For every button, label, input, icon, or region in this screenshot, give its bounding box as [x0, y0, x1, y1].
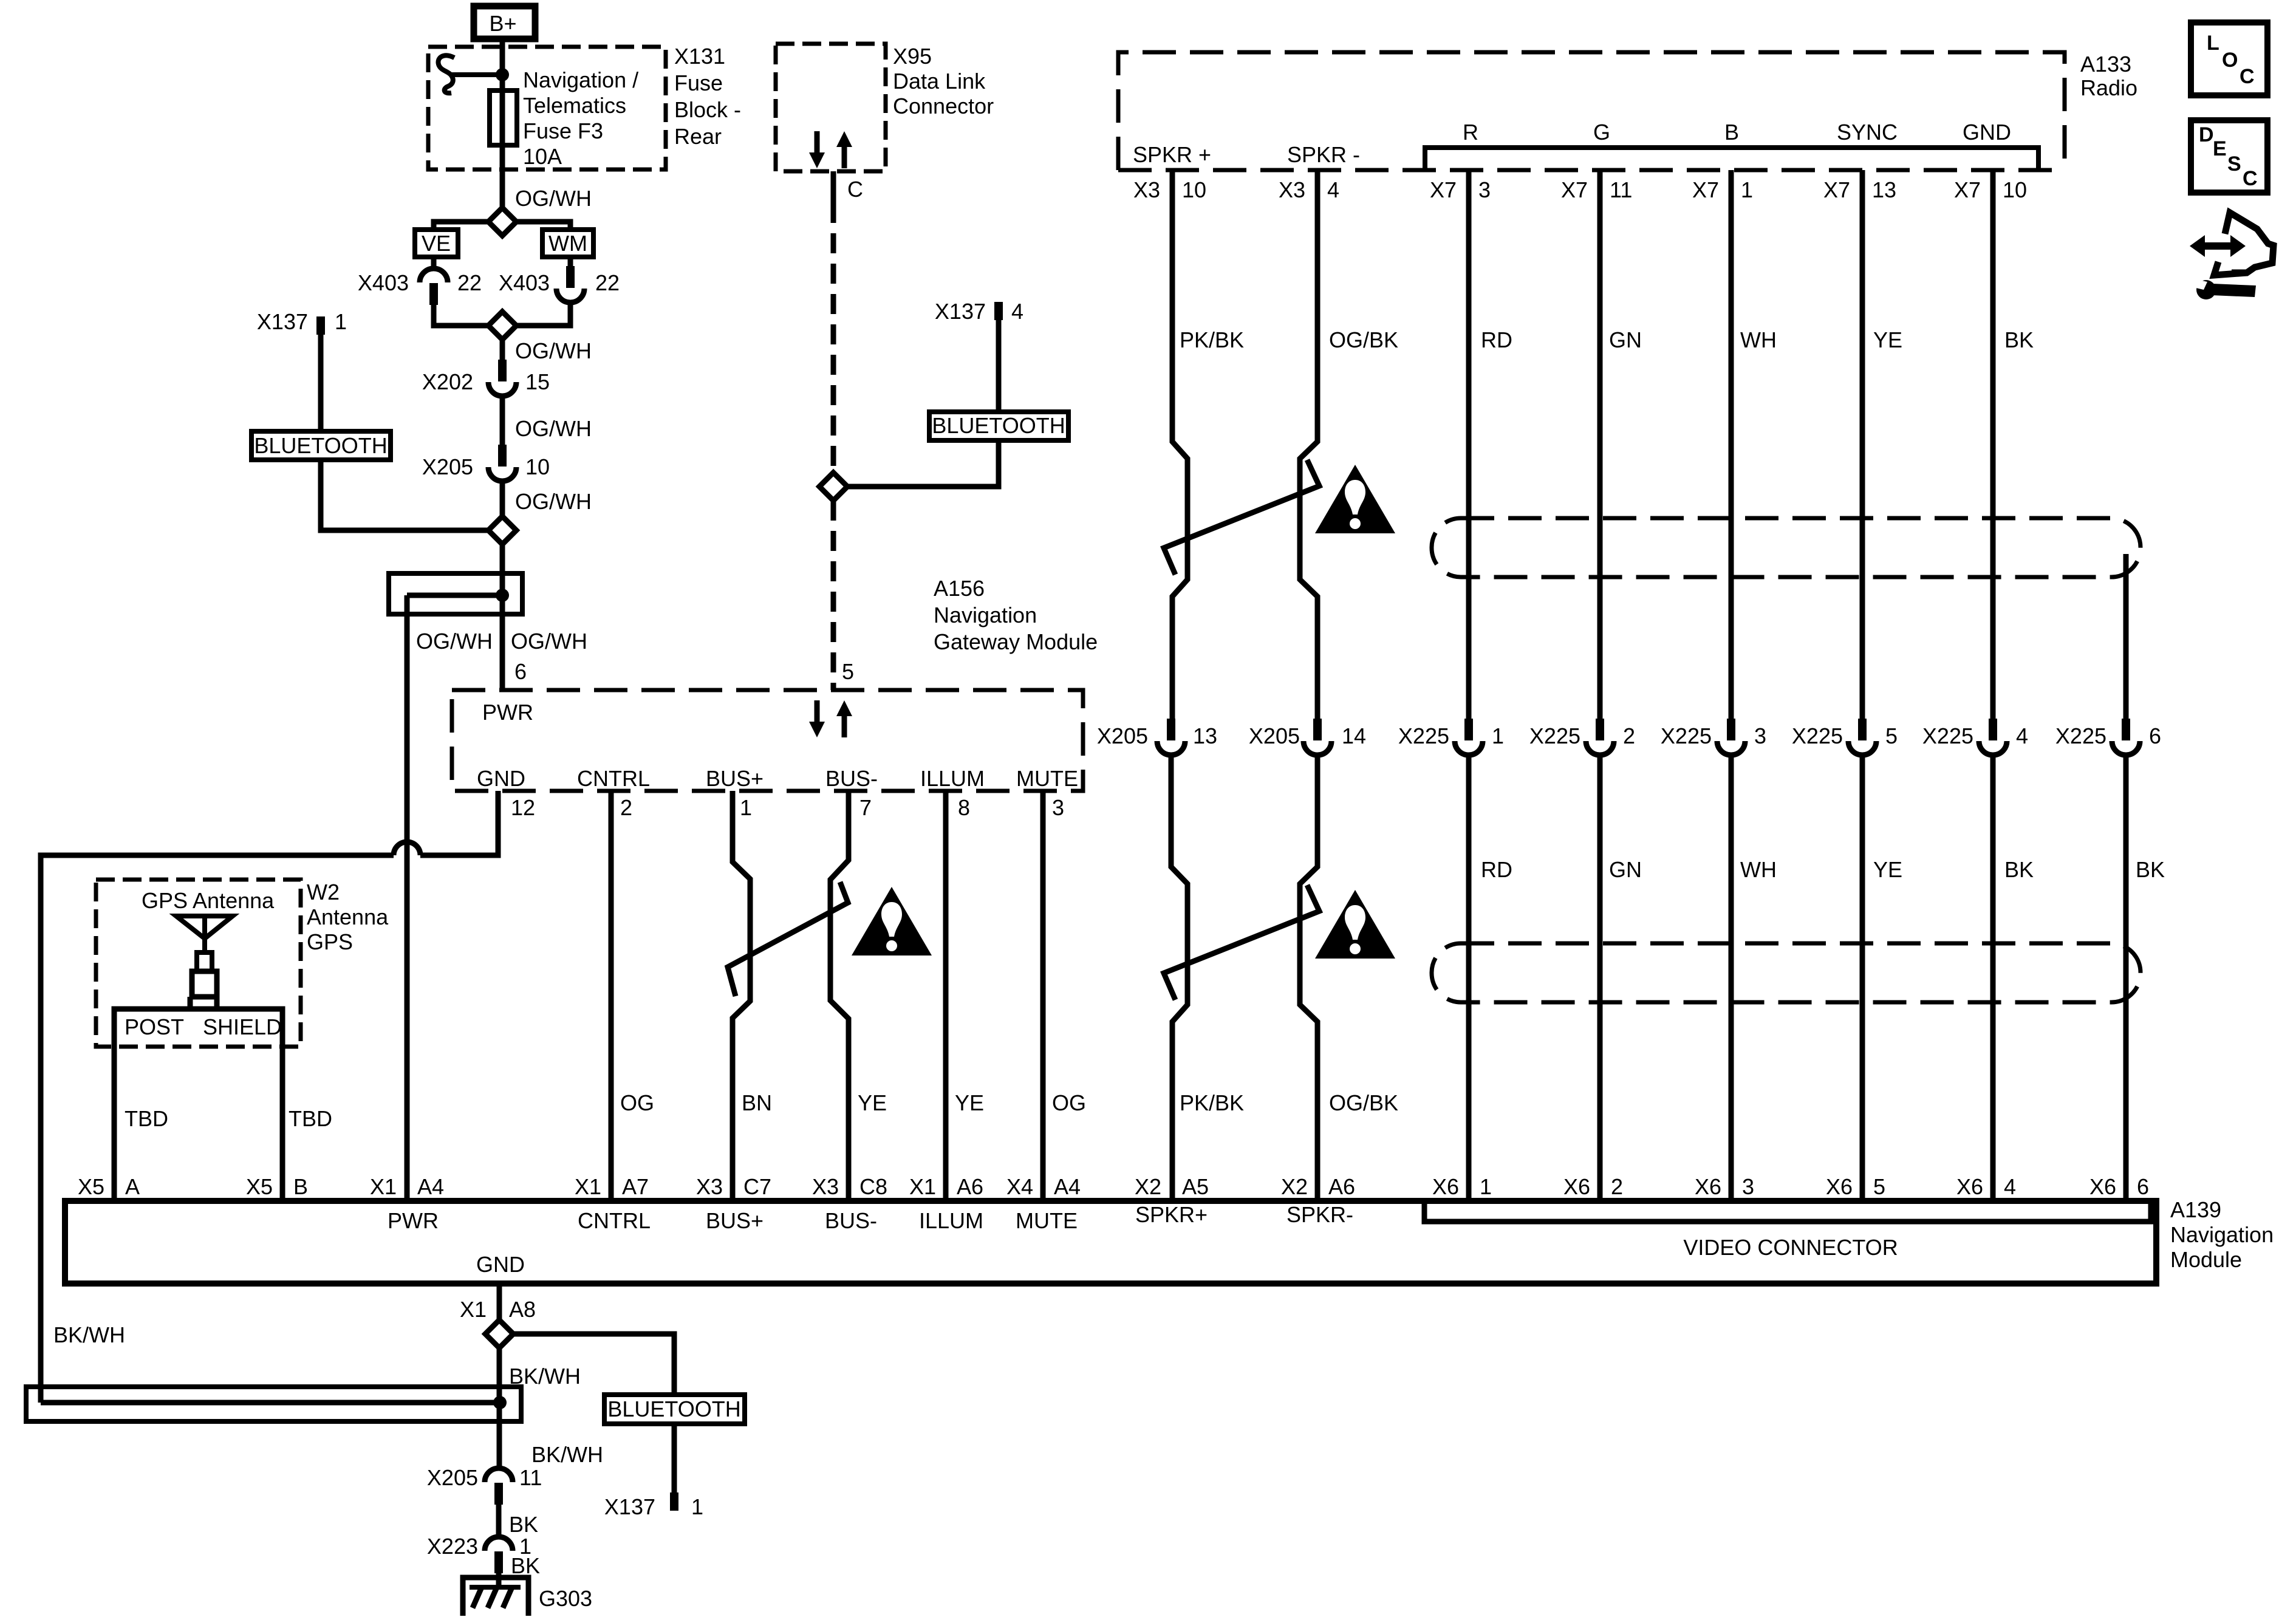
svg-text:YE: YE	[1873, 327, 1902, 352]
dashed data wire to A156 pin 5	[831, 501, 836, 690]
pin C stub	[831, 171, 836, 203]
pin X7 13	[1823, 177, 1896, 202]
svg-text:BK: BK	[511, 1553, 540, 1578]
svg-text:YE: YE	[955, 1090, 984, 1115]
svg-text:2: 2	[620, 795, 632, 820]
pin labels GND CNTRL BUS+ BUS- ILLUM MUTE	[477, 766, 1078, 791]
label X403 22	[499, 270, 620, 295]
svg-text:RD: RD	[1481, 857, 1512, 882]
svg-text:BUS-: BUS-	[825, 1208, 877, 1233]
svg-text:X1: X1	[909, 1174, 936, 1199]
svg-text:4: 4	[1327, 177, 1339, 202]
connector X223 1	[485, 1537, 513, 1573]
shield drain wire BK	[2123, 554, 2129, 720]
pin X3 4	[1279, 177, 1339, 202]
svg-text:CNTRL: CNTRL	[577, 766, 650, 791]
svg-text:X7: X7	[1823, 177, 1850, 202]
svg-text:SPKR -: SPKR -	[1287, 142, 1360, 167]
svg-text:MUTE: MUTE	[1016, 766, 1078, 791]
svg-text:Block -: Block -	[674, 97, 741, 122]
wire continues left and down	[41, 855, 394, 1403]
video wire	[1597, 170, 1603, 720]
svg-text:X223: X223	[427, 1534, 478, 1559]
svg-text:GN: GN	[1609, 327, 1642, 352]
svg-text:2: 2	[1611, 1174, 1623, 1199]
wire branch to BLUETOOTH X137 1	[513, 1334, 674, 1492]
labels TBD TBD	[125, 1106, 332, 1131]
warning triangle	[852, 887, 932, 955]
svg-text:X6: X6	[1826, 1174, 1853, 1199]
wire colour labels OG BN YE YE OG	[620, 1090, 1086, 1115]
label W2 Antenna GPS	[307, 880, 389, 954]
connector X225 3	[1717, 719, 1745, 755]
down arrow	[809, 131, 825, 168]
svg-text:BLUETOOTH: BLUETOOTH	[932, 413, 1065, 438]
labels POST SHIELD	[125, 1014, 282, 1039]
node diamond	[485, 1320, 513, 1348]
node diamond	[488, 516, 516, 544]
svg-text:B+: B+	[489, 11, 516, 36]
svg-text:SPKR-: SPKR-	[1286, 1202, 1353, 1227]
svg-text:A: A	[125, 1174, 140, 1199]
svg-text:WH: WH	[1740, 327, 1777, 352]
svg-text:BN: BN	[742, 1090, 772, 1115]
svg-text:2: 2	[1623, 723, 1635, 748]
svg-text:BUS-: BUS-	[825, 766, 878, 791]
wire to WM	[516, 222, 570, 230]
pin X6 1	[1432, 1174, 1492, 1199]
wire GND BK/WH run to left side	[420, 791, 498, 855]
labels R G B SYNC GND	[1463, 120, 2011, 145]
shield oval upper dashed	[1432, 518, 2141, 577]
pin X7 11	[1561, 177, 1632, 202]
svg-text:BK: BK	[2004, 857, 2034, 882]
svg-text:8: 8	[958, 795, 970, 820]
svg-text:X6: X6	[1695, 1174, 1721, 1199]
svg-text:BK: BK	[2136, 857, 2165, 882]
svg-text:BLUETOOTH: BLUETOOTH	[607, 1396, 740, 1421]
label X95 Data Link Connector	[893, 44, 994, 118]
module A133 Radio dashed box	[1118, 52, 2065, 170]
down arrow	[809, 700, 825, 737]
svg-text:SYNC: SYNC	[1837, 120, 1898, 145]
pin X4 A4	[1006, 1174, 1081, 1199]
wire hop over PWR wire	[394, 842, 420, 855]
svg-text:PWR: PWR	[388, 1208, 439, 1233]
pin X2 A5	[1135, 1174, 1209, 1199]
svg-text:X225: X225	[1398, 723, 1449, 748]
warning triangle	[1315, 465, 1395, 533]
svg-text:Antenna: Antenna	[307, 904, 389, 929]
svg-text:3: 3	[1478, 177, 1491, 202]
wire to X202	[500, 340, 505, 361]
terminal pin X137 1	[670, 1492, 678, 1511]
connector X225 4	[1979, 719, 2007, 755]
svg-text:X7: X7	[1954, 177, 1981, 202]
svg-text:X7: X7	[1561, 177, 1588, 202]
svg-text:A6: A6	[957, 1174, 983, 1199]
svg-text:X202: X202	[422, 369, 473, 394]
svg-text:G: G	[1593, 120, 1610, 145]
connector X205 13	[1157, 719, 1185, 755]
pin X1 A8	[460, 1297, 536, 1322]
wire ILLUM	[943, 791, 949, 1201]
svg-text:Rear: Rear	[674, 124, 722, 149]
svg-text:C: C	[2240, 65, 2255, 88]
label A156 Navigation Gateway Module	[934, 576, 1098, 654]
svg-text:X6: X6	[2089, 1174, 2116, 1199]
box BLUETOOTH	[929, 412, 1068, 440]
fuse block X131 dashed box	[428, 47, 666, 169]
wire BUS- with twist jog	[830, 791, 849, 1201]
svg-text:10: 10	[525, 454, 550, 479]
svg-text:22: 22	[457, 270, 482, 295]
svg-text:15: 15	[525, 369, 550, 394]
dashed data wire	[831, 203, 836, 473]
label A139 Navigation Module	[2170, 1197, 2274, 1272]
wire CNTRL	[609, 791, 614, 1201]
svg-text:Telematics: Telematics	[523, 93, 626, 118]
svg-text:X7: X7	[1430, 177, 1457, 202]
pin numbers 12 2 1 7 8 3	[511, 795, 1064, 820]
svg-text:6: 6	[2149, 723, 2161, 748]
svg-text:X137: X137	[935, 299, 986, 324]
svg-text:X95: X95	[893, 44, 932, 69]
svg-text:X1: X1	[460, 1297, 487, 1322]
labels PK/BK OG/BK lower	[1180, 1090, 1398, 1115]
svg-text:14: 14	[1342, 723, 1366, 748]
wire to ground	[496, 1573, 502, 1588]
wire GND from A139	[497, 1284, 502, 1321]
svg-text:X6: X6	[1563, 1174, 1590, 1199]
pin X7 1	[1692, 177, 1753, 202]
svg-text:X6: X6	[1956, 1174, 1983, 1199]
wire connector to diamond	[434, 305, 489, 326]
label X403 22	[358, 270, 482, 295]
svg-text:B: B	[293, 1174, 308, 1199]
icon LOC box	[2191, 22, 2267, 95]
antenna symbol	[176, 916, 233, 1009]
wire	[496, 1505, 502, 1536]
svg-text:X3: X3	[812, 1174, 839, 1199]
svg-text:OG/WH: OG/WH	[511, 629, 587, 654]
svg-text:X205: X205	[422, 454, 473, 479]
connector X403 pin 22 (VE side)	[420, 268, 448, 305]
connector X225 2	[1586, 719, 1614, 755]
svg-text:X1: X1	[575, 1174, 601, 1199]
svg-text:6: 6	[514, 659, 527, 684]
pin X3 C7	[696, 1174, 771, 1199]
svg-text:10: 10	[2003, 177, 2027, 202]
svg-text:3: 3	[1754, 723, 1766, 748]
svg-text:X403: X403	[358, 270, 409, 295]
svg-text:OG: OG	[620, 1090, 654, 1115]
svg-text:10: 10	[1182, 177, 1206, 202]
node diamond	[819, 473, 847, 501]
svg-text:Radio: Radio	[2080, 75, 2137, 100]
wire SPKR+ PK/BK	[1172, 170, 1187, 720]
svg-text:Navigation /: Navigation /	[523, 67, 638, 92]
svg-text:7: 7	[859, 795, 872, 820]
video wire	[1729, 170, 1734, 720]
wire SPKR+ lower with twist jog	[1171, 757, 1187, 1201]
svg-text:X225: X225	[1922, 723, 1973, 748]
svg-text:X5: X5	[78, 1174, 104, 1199]
svg-text:PWR: PWR	[482, 700, 533, 725]
svg-text:BK/WH: BK/WH	[53, 1322, 125, 1347]
svg-text:TBD: TBD	[289, 1106, 332, 1131]
wire branch to BLUETOOTH X137 1	[321, 335, 489, 530]
splice bar S-connection	[389, 573, 522, 614]
pin X3 C8	[812, 1174, 887, 1199]
video wire	[1990, 170, 1996, 720]
video wire	[1860, 170, 1865, 720]
wire to splice bar	[497, 1347, 502, 1466]
svg-text:YE: YE	[1873, 857, 1902, 882]
box VE	[415, 230, 458, 257]
svg-text:BK/WH: BK/WH	[531, 1442, 603, 1467]
svg-text:X3: X3	[1279, 177, 1305, 202]
svg-text:Navigation: Navigation	[2170, 1222, 2274, 1247]
wire branch to BLUETOOTH X137 4	[847, 320, 999, 487]
box WM	[542, 230, 593, 257]
svg-text:X205: X205	[1097, 723, 1148, 748]
svg-text:GND: GND	[476, 1252, 525, 1277]
svg-text:C: C	[2243, 167, 2258, 190]
svg-text:A139: A139	[2170, 1197, 2221, 1222]
ground G303 symbol	[463, 1578, 528, 1616]
svg-text:C: C	[847, 177, 863, 202]
svg-text:OG: OG	[1052, 1090, 1086, 1115]
connector X225 6	[2112, 719, 2140, 755]
icon service arrow-wrench	[2190, 213, 2274, 299]
svg-text:X137: X137	[604, 1494, 655, 1519]
svg-text:E: E	[2213, 137, 2227, 160]
svg-text:5: 5	[1885, 723, 1898, 748]
svg-text:ILLUM: ILLUM	[920, 766, 985, 791]
svg-text:X225: X225	[2055, 723, 2106, 748]
svg-text:X3: X3	[1133, 177, 1160, 202]
svg-text:SPKR+: SPKR+	[1135, 1202, 1208, 1227]
svg-text:X137: X137	[257, 309, 308, 334]
label A133 Radio	[2080, 52, 2137, 100]
wire VE to connector	[431, 257, 437, 267]
connector X205 14	[1303, 719, 1331, 755]
svg-text:X205: X205	[1249, 723, 1300, 748]
svg-text:A8: A8	[509, 1297, 536, 1322]
svg-text:X131: X131	[674, 44, 725, 69]
svg-text:5: 5	[1873, 1174, 1885, 1199]
svg-text:OG/WH: OG/WH	[515, 489, 592, 514]
svg-text:TBD: TBD	[125, 1106, 168, 1131]
connector X225 1	[1455, 719, 1483, 755]
wire B+ feed to diamond	[500, 39, 505, 208]
svg-text:3: 3	[1052, 795, 1064, 820]
pin X5 A	[78, 1174, 140, 1199]
pin X7 3	[1430, 177, 1491, 202]
svg-text:BK: BK	[509, 1512, 538, 1537]
svg-text:Fuse: Fuse	[674, 70, 723, 95]
svg-text:SPKR +: SPKR +	[1133, 142, 1211, 167]
pin X6 3	[1695, 1174, 1754, 1199]
wire SPKR- lower with twist jog	[1300, 757, 1317, 1201]
svg-text:X2: X2	[1281, 1174, 1308, 1199]
connector X205 11	[485, 1468, 513, 1505]
svg-text:A4: A4	[417, 1174, 444, 1199]
pin X2 A6	[1281, 1174, 1355, 1199]
fuse block internal link curl	[439, 55, 454, 93]
wire into splice bar	[500, 544, 505, 690]
connector X202 pin 15	[488, 360, 516, 396]
svg-text:4: 4	[2004, 1174, 2016, 1199]
splice junction node	[496, 589, 509, 602]
svg-text:C8: C8	[859, 1174, 887, 1199]
svg-text:D: D	[2199, 123, 2214, 146]
label Navigation / Telematics Fuse F3 10A	[523, 67, 638, 169]
svg-text:X225: X225	[1529, 723, 1580, 748]
splice inner wire	[407, 593, 502, 598]
svg-text:1: 1	[1741, 177, 1753, 202]
svg-text:3: 3	[1742, 1174, 1754, 1199]
twisted pair crossing symbol	[1164, 885, 1319, 1000]
svg-text:4: 4	[1011, 299, 1023, 324]
svg-text:12: 12	[511, 795, 535, 820]
svg-text:RD: RD	[1481, 327, 1512, 352]
wire splice to A139 PWR	[405, 595, 410, 1201]
svg-text:A5: A5	[1182, 1174, 1209, 1199]
svg-text:22: 22	[595, 270, 620, 295]
up arrow	[836, 131, 852, 168]
wire to diamond	[500, 483, 505, 517]
pin X7 10	[1954, 177, 2027, 202]
splice junction node	[493, 1396, 507, 1409]
box POST SHIELD	[114, 1009, 282, 1201]
svg-text:X1: X1	[370, 1174, 397, 1199]
video connector bracket	[1424, 1203, 2151, 1222]
box BLUETOOTH	[251, 431, 391, 460]
terminal pin X137 1	[316, 316, 325, 335]
twisted pair crossing symbol	[728, 882, 848, 996]
wire WM to connector	[568, 257, 573, 268]
box BLUETOOTH	[604, 1395, 745, 1424]
fuse F3 10A	[490, 91, 517, 145]
svg-text:VIDEO CONNECTOR: VIDEO CONNECTOR	[1683, 1235, 1898, 1260]
svg-text:A133: A133	[2080, 52, 2131, 77]
pin X1 A6	[909, 1174, 983, 1199]
svg-text:WH: WH	[1740, 857, 1777, 882]
svg-text:OG/WH: OG/WH	[416, 629, 493, 654]
svg-text:1: 1	[1492, 723, 1504, 748]
svg-text:X7: X7	[1692, 177, 1719, 202]
svg-text:X5: X5	[246, 1174, 273, 1199]
junction node in fuse block	[496, 68, 509, 81]
pin X6 5	[1826, 1174, 1885, 1199]
svg-text:O: O	[2222, 49, 2238, 72]
pin X1 A7	[575, 1174, 649, 1199]
svg-text:L: L	[2207, 32, 2219, 55]
svg-text:MUTE: MUTE	[1016, 1208, 1078, 1233]
pin X6 4	[1956, 1174, 2016, 1199]
svg-text:X403: X403	[499, 270, 550, 295]
node diamond split VE/WM	[488, 208, 516, 236]
svg-text:OG/WH: OG/WH	[515, 338, 592, 363]
svg-text:S: S	[2227, 152, 2241, 176]
internal video bracket R G B SYNC GND	[1425, 148, 2038, 172]
svg-text:OG/BK: OG/BK	[1329, 327, 1398, 352]
pin X6 2	[1563, 1174, 1623, 1199]
svg-text:Navigation: Navigation	[934, 603, 1037, 627]
svg-text:1: 1	[740, 795, 752, 820]
svg-text:BK: BK	[2004, 327, 2034, 352]
wire BUS+ with twist jog	[733, 791, 750, 1201]
svg-text:Connector: Connector	[893, 94, 994, 118]
terminal pin X137 4	[994, 302, 1003, 320]
svg-text:G303: G303	[539, 1586, 592, 1611]
svg-text:A4: A4	[1054, 1174, 1081, 1199]
module A156 Navigation Gateway dashed box	[452, 690, 1083, 791]
pin X1 A4	[370, 1174, 444, 1199]
wire to VE	[434, 222, 489, 230]
wire link to node	[451, 72, 502, 77]
label X131 Fuse Block - Rear	[674, 44, 741, 149]
svg-text:A7: A7	[622, 1174, 649, 1199]
svg-text:OG/BK: OG/BK	[1329, 1090, 1398, 1115]
svg-text:GND: GND	[477, 766, 525, 791]
svg-text:1: 1	[691, 1494, 703, 1519]
svg-text:11: 11	[1610, 177, 1632, 202]
connector X403 pin 22 (WM side)	[556, 266, 584, 303]
labels PK/BK OG/BK RD GN WH YE BK	[1180, 327, 2034, 352]
radio bottom edge dashed	[1118, 168, 2065, 173]
wire connector to diamond	[516, 303, 570, 326]
splice inner wire	[41, 1400, 500, 1406]
svg-text:X225: X225	[1792, 723, 1843, 748]
svg-text:PK/BK: PK/BK	[1180, 327, 1244, 352]
svg-text:Gateway Module: Gateway Module	[934, 629, 1098, 654]
svg-text:R: R	[1463, 120, 1478, 145]
svg-text:BLUETOOTH: BLUETOOTH	[254, 433, 387, 458]
labels RD GN WH YE BK BK mid	[1481, 857, 2165, 882]
svg-text:SHIELD: SHIELD	[203, 1014, 282, 1039]
svg-text:B: B	[1724, 120, 1739, 145]
battery terminal B+	[474, 6, 535, 39]
splice bar	[26, 1387, 521, 1421]
module A139 Navigation Module box	[65, 1201, 2156, 1284]
svg-text:13: 13	[1193, 723, 1217, 748]
shield oval lower dashed	[1432, 943, 2141, 1002]
svg-text:W2: W2	[307, 880, 340, 904]
svg-text:A156: A156	[934, 576, 985, 601]
svg-text:1: 1	[1480, 1174, 1492, 1199]
svg-text:GPS Antenna: GPS Antenna	[142, 888, 275, 913]
svg-text:A6: A6	[1328, 1174, 1355, 1199]
pin X5 B	[246, 1174, 308, 1199]
svg-text:11: 11	[519, 1465, 542, 1490]
connector X205 pin 10	[488, 445, 516, 481]
svg-text:1: 1	[335, 309, 347, 334]
svg-text:Module: Module	[2170, 1247, 2242, 1272]
svg-text:PK/BK: PK/BK	[1180, 1090, 1244, 1115]
svg-text:GPS: GPS	[307, 929, 353, 954]
svg-text:C7: C7	[743, 1174, 771, 1199]
svg-text:X225: X225	[1661, 723, 1712, 748]
svg-text:GND: GND	[1963, 120, 2011, 145]
svg-text:X3: X3	[696, 1174, 723, 1199]
svg-text:X4: X4	[1006, 1174, 1033, 1199]
svg-text:BUS+: BUS+	[706, 1208, 764, 1233]
warning triangle	[1315, 890, 1395, 959]
svg-text:ILLUM: ILLUM	[919, 1208, 983, 1233]
